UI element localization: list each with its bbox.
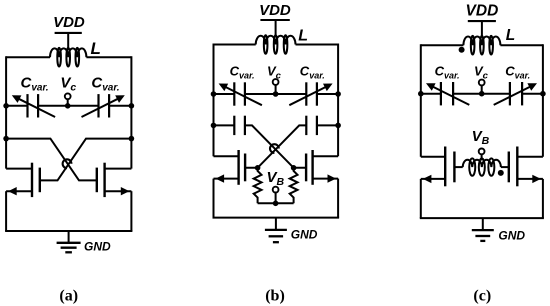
- svg-text:GND: GND: [498, 229, 525, 243]
- label V_c (c): [474, 64, 489, 82]
- varactor C_var right (b): [289, 82, 332, 105]
- drain wire M6 (c): [517, 156, 543, 158]
- svg-text:L: L: [298, 27, 308, 44]
- label L (c): [506, 27, 515, 44]
- node dot rail left (a): [3, 103, 9, 109]
- transistor M6 (c): [509, 147, 518, 187]
- varactor C_var right (c): [494, 82, 537, 105]
- svg-text:(b): (b): [265, 288, 285, 305]
- cross-couple wire to M4 gate (b): [245, 125, 306, 167]
- drain wire M2 (a): [105, 168, 132, 170]
- inductor L1 (a): [50, 48, 86, 67]
- control terminal V_c (c): [479, 80, 485, 94]
- svg-text:GND: GND: [84, 239, 111, 253]
- node dot rail left (b): [211, 91, 217, 97]
- source wire M4 with arrow (b): [313, 174, 339, 182]
- wire top rail left (a): [6, 56, 50, 58]
- wire right edge (c): [542, 44, 544, 157]
- wire left lower edge (b): [213, 179, 215, 218]
- svg-text:(a): (a): [59, 288, 78, 305]
- label V_B (c): [472, 128, 490, 147]
- wire right edge (a): [130, 56, 132, 168]
- wire varactor rail (a): [6, 105, 131, 107]
- wire resistor bottoms (b): [258, 202, 294, 204]
- source wire M1 with arrow (a): [6, 187, 32, 195]
- wire top rail right (c): [500, 44, 543, 46]
- node dot rail right (a): [129, 103, 135, 109]
- svg-text:GND: GND: [291, 228, 318, 242]
- label C_var left (c): [435, 64, 460, 81]
- polarity dot secondary (c): [498, 170, 504, 176]
- transistor M3 (b): [239, 150, 246, 185]
- coupling capacitor left (b): [234, 116, 245, 135]
- wire left edge (a): [5, 56, 7, 168]
- node dot rail center (b): [273, 91, 279, 97]
- svg-text:VDD: VDD: [466, 3, 499, 20]
- drain wire M4 (b): [313, 155, 339, 157]
- ground symbol (c): [472, 218, 494, 241]
- inductor L2 (b): [256, 35, 296, 54]
- wire bottom rail (c): [420, 217, 544, 219]
- wire top rail right (a): [86, 56, 131, 58]
- caption (b): [265, 288, 285, 305]
- node dot mid left (a): [3, 136, 9, 142]
- source wire M5 with arrow (c): [421, 175, 445, 183]
- cross-couple wire to M2 gate (a): [6, 139, 97, 181]
- wire top rail right (b): [296, 44, 339, 46]
- transistor M1 (a): [32, 163, 40, 197]
- ground symbol (a): [57, 231, 81, 252]
- varactor C_var right (a): [82, 94, 125, 117]
- node dot rail center (c): [479, 91, 485, 97]
- wire cap row left (b): [214, 124, 235, 126]
- source wire M2 with arrow (a): [105, 187, 132, 195]
- node dot mid right (a): [129, 136, 135, 142]
- svg-text:VDD: VDD: [259, 2, 291, 19]
- drain wire M5 (c): [421, 156, 445, 158]
- label V_c (b): [267, 64, 282, 82]
- transistor M2 (a): [97, 163, 105, 197]
- drain wire M3 (b): [214, 155, 239, 157]
- wire top rail left (b): [214, 44, 256, 46]
- varactor C_var left (a): [12, 94, 55, 117]
- wire varactor rail (c): [421, 93, 543, 95]
- crossover hop ring (a): [63, 159, 72, 168]
- node dot rail center (a): [65, 103, 71, 109]
- inductor L3 secondary (c): [463, 158, 501, 175]
- gate wire M5 (c): [454, 166, 462, 168]
- label C_var left (b): [230, 64, 255, 81]
- wire left edge (b): [213, 44, 215, 157]
- VDD tap wire (b): [275, 20, 277, 37]
- varactor C_var left (c): [426, 82, 469, 105]
- label V_c (a): [60, 74, 76, 93]
- label L (a): [91, 39, 101, 58]
- control terminal V_c (b): [273, 79, 279, 94]
- label L (b): [298, 27, 308, 44]
- label GND (b): [291, 228, 318, 242]
- svg-text:VDD: VDD: [53, 14, 85, 31]
- resistor R1 (b): [254, 170, 262, 204]
- caption (c): [473, 288, 491, 305]
- wire left lower edge (a): [5, 191, 7, 231]
- cross-couple wire to M3 gate (b): [245, 125, 306, 167]
- wire right lower edge (c): [542, 179, 544, 218]
- svg-text:(c): (c): [473, 288, 491, 305]
- wire right lower edge (a): [130, 191, 132, 231]
- node dot cap row left (b): [211, 123, 217, 129]
- wire top rail left (c): [421, 44, 464, 46]
- crossover hop ring (b): [270, 144, 279, 153]
- svg-text:L: L: [506, 27, 515, 44]
- inductor L3 primary (c): [463, 36, 500, 55]
- varactor C_var left (b): [219, 82, 262, 105]
- transistor M5 (c): [445, 147, 454, 187]
- wire right edge (b): [337, 44, 339, 157]
- label V_B (b): [267, 169, 285, 188]
- label GND (c): [498, 229, 525, 243]
- bias terminal V_B (b): [273, 187, 279, 204]
- VDD tap wire (c): [481, 21, 483, 37]
- node dot gate M4 (b): [291, 165, 297, 171]
- power label VDD (c): [466, 3, 499, 22]
- wire varactor rail (b): [214, 93, 339, 95]
- wire cap row right (b): [317, 124, 338, 126]
- ground symbol (b): [265, 218, 287, 243]
- cross-couple wire to M1 gate (a): [40, 139, 132, 181]
- polarity dot primary (c): [459, 47, 465, 53]
- label C_var right (b): [300, 64, 325, 81]
- node dot cap row right (b): [335, 123, 341, 129]
- wire bottom rail (b): [213, 217, 340, 219]
- node dot gate M3 (b): [255, 165, 261, 171]
- power label VDD (a): [53, 14, 85, 33]
- node dot rail left (c): [418, 91, 424, 97]
- svg-text:L: L: [91, 39, 101, 58]
- wire bottom rail (a): [5, 230, 132, 232]
- source wire M3 with arrow (b): [214, 174, 239, 182]
- gate wire M6 (c): [501, 166, 509, 168]
- wire left edge (c): [420, 44, 422, 157]
- wire right lower edge (b): [337, 179, 339, 218]
- drain wire M1 (a): [6, 168, 32, 170]
- label C_var right (c): [505, 64, 530, 81]
- label GND (a): [84, 239, 111, 253]
- wire left lower edge (c): [420, 179, 422, 218]
- label C_var right (a): [91, 74, 119, 93]
- node dot V_B (b): [273, 201, 279, 207]
- control terminal V_c (a): [65, 93, 71, 105]
- VDD tap wire (a): [67, 33, 69, 50]
- transistor M4 (b): [306, 150, 313, 185]
- source wire M6 with arrow (c): [517, 175, 543, 183]
- node dot rail right (c): [540, 91, 546, 97]
- power label VDD (b): [259, 2, 291, 20]
- bias terminal V_B (c): [479, 149, 485, 161]
- coupling capacitor right (b): [306, 116, 317, 135]
- label C_var left (a): [21, 74, 49, 93]
- node dot rail right (b): [335, 91, 341, 97]
- caption (a): [59, 288, 78, 305]
- resistor R2 (b): [290, 170, 298, 204]
